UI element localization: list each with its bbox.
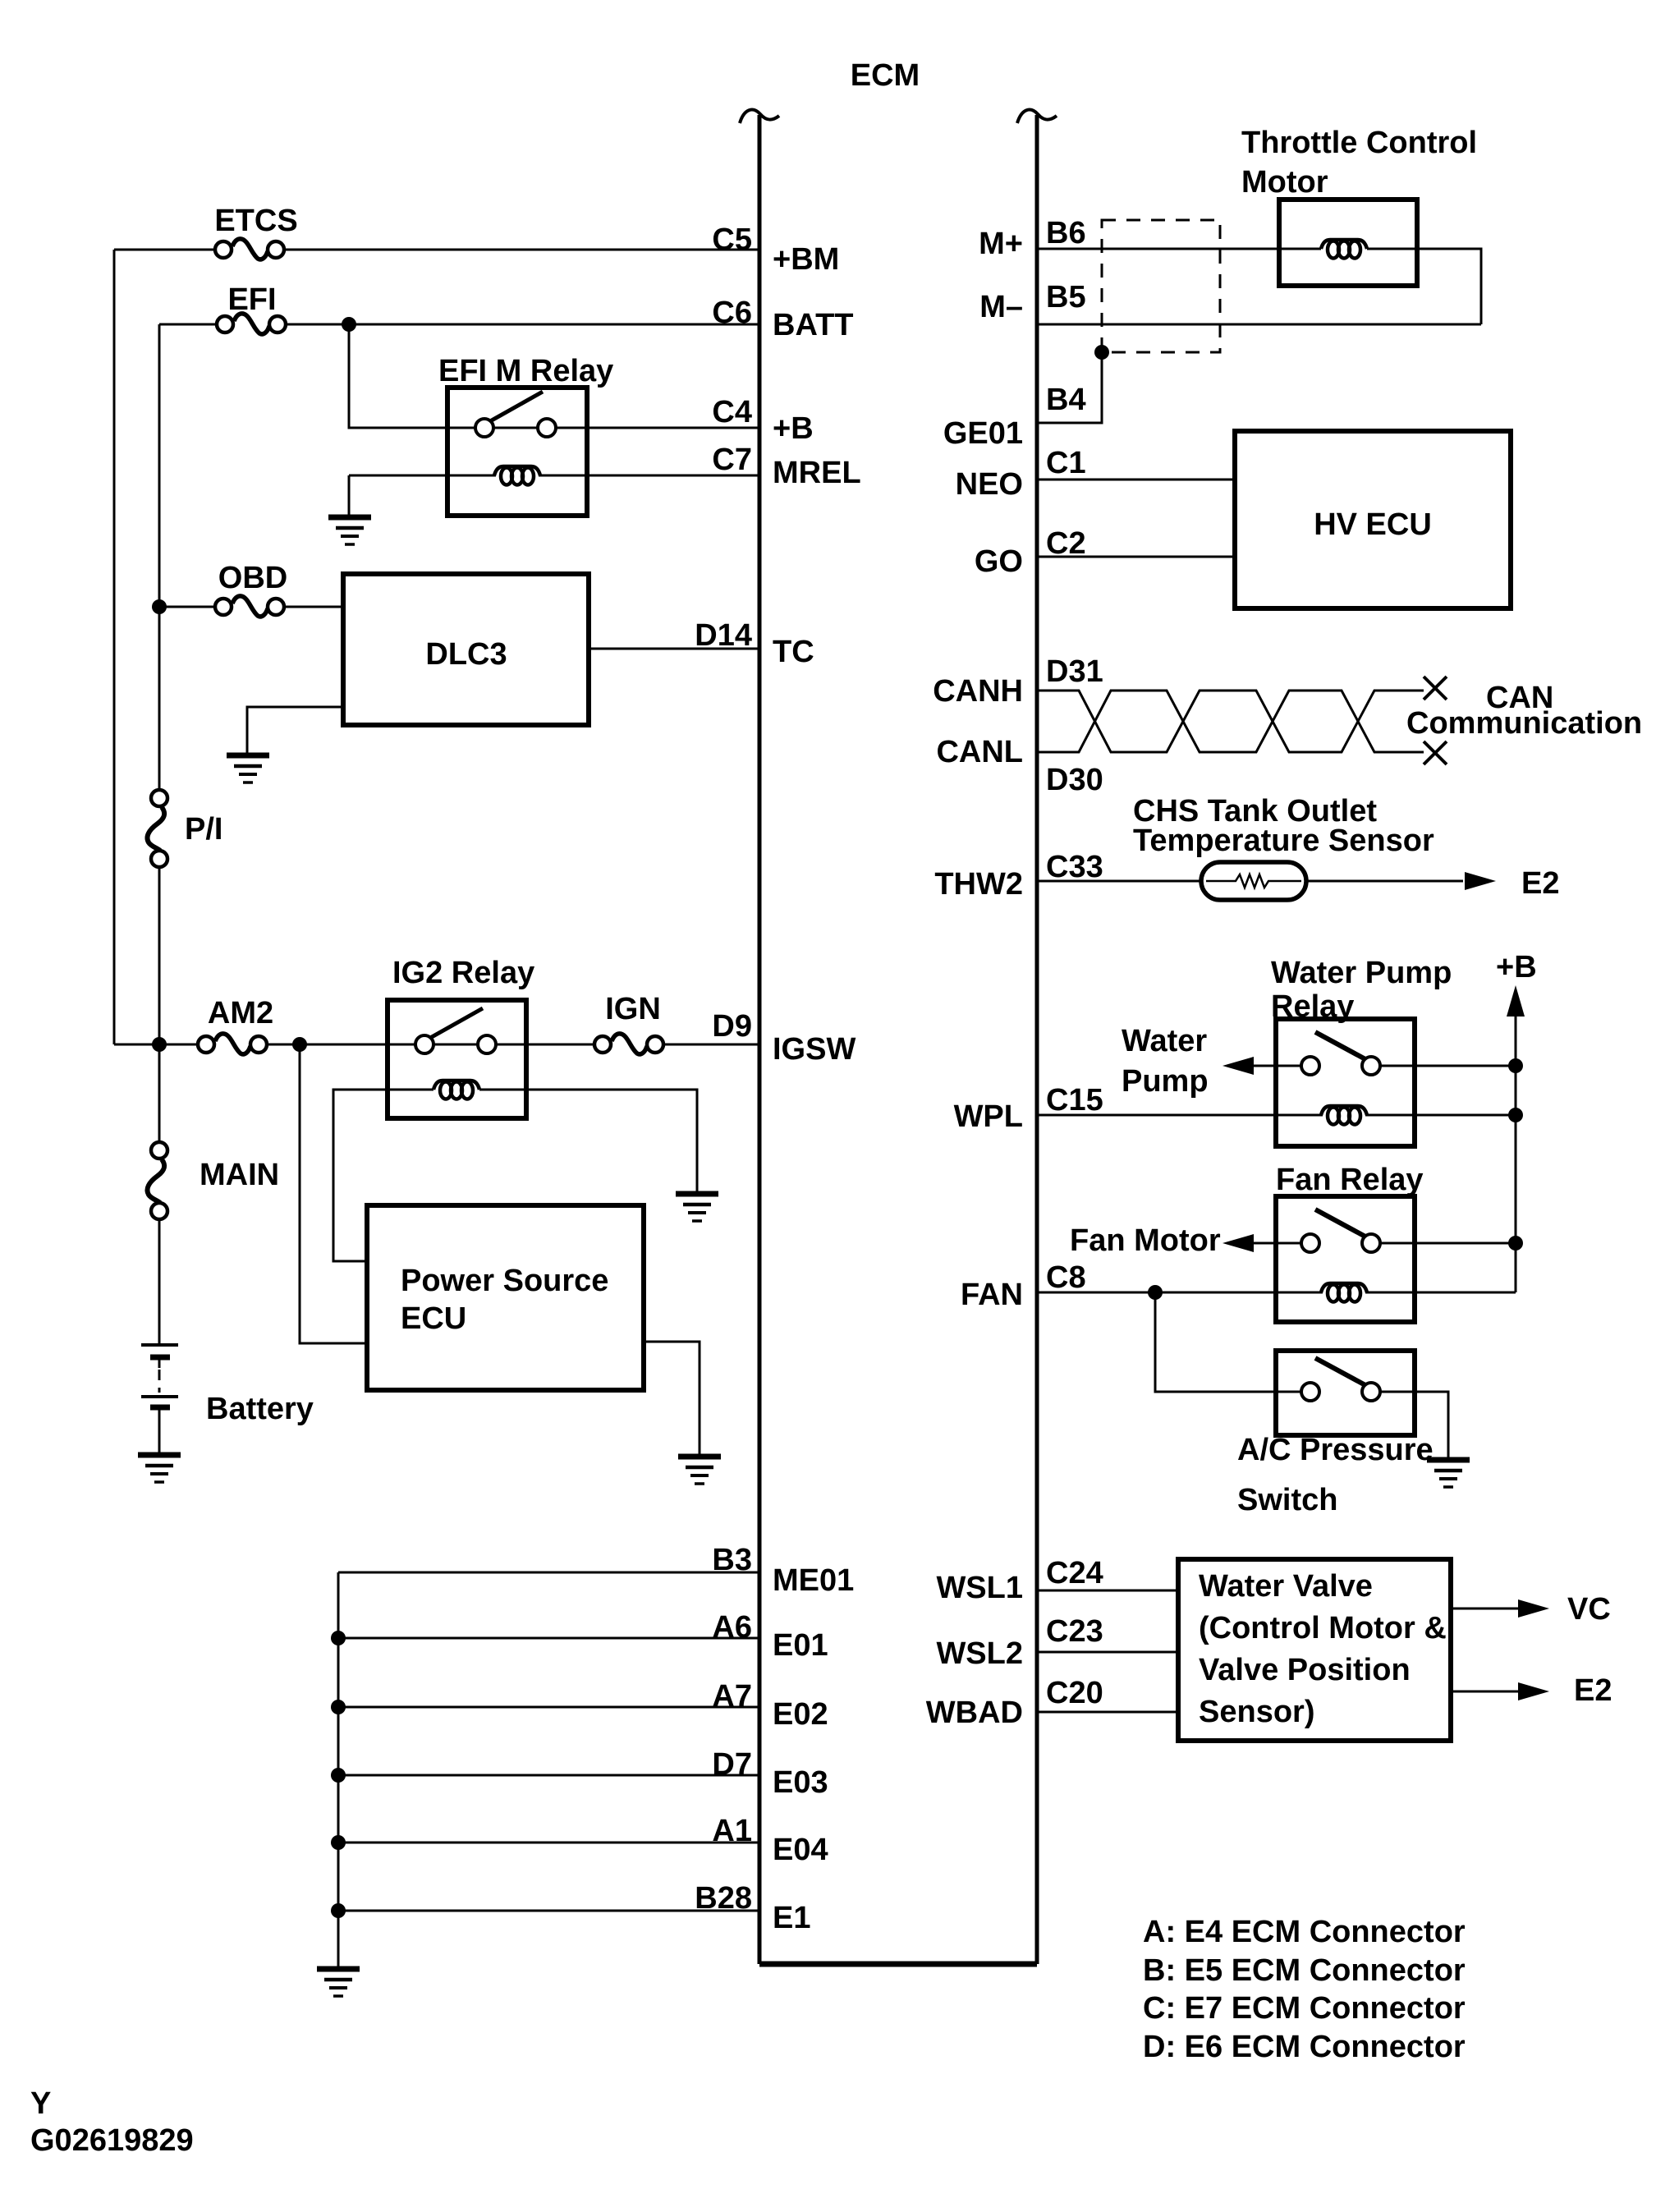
svg-text:AM2: AM2 — [208, 996, 273, 1030]
svg-text:WPL: WPL — [954, 1099, 1023, 1134]
pin C24 WSL1 — [936, 1556, 1103, 1605]
node FAN branch — [1148, 1285, 1163, 1300]
svg-text:E01: E01 — [773, 1628, 828, 1663]
wire IG2 coil to Power Source ECU — [333, 1090, 433, 1261]
label Battery — [206, 1392, 314, 1426]
ground IG2 relay coil — [676, 1194, 718, 1221]
label figure number G02619829 — [30, 2123, 194, 2158]
svg-text:E03: E03 — [773, 1765, 828, 1800]
relay EFI M switch — [475, 392, 556, 437]
svg-text:C: E7 ECM Connector: C: E7 ECM Connector — [1143, 1991, 1466, 2026]
svg-text:Water Valve: Water Valve — [1199, 1569, 1373, 1604]
svg-text:Throttle Control: Throttle Control — [1241, 126, 1477, 160]
pin C15 WPL — [954, 1083, 1103, 1134]
wire DLC3 ground lead — [247, 707, 343, 754]
box Power Source ECU — [367, 1205, 644, 1390]
svg-text:ME01: ME01 — [773, 1563, 854, 1598]
battery — [141, 1212, 178, 1455]
pin B5 M– — [979, 280, 1085, 324]
svg-text:D: E6 ECM Connector: D: E6 ECM Connector — [1143, 2030, 1466, 2064]
wire FAN branch to A/C switch — [1155, 1292, 1301, 1392]
label IG2 Relay — [392, 956, 534, 990]
arrow and label +B — [1496, 950, 1537, 1017]
wire WSL2 C23 — [1037, 1651, 1178, 1654]
box DLC3 — [343, 574, 589, 725]
svg-text:WSL2: WSL2 — [936, 1636, 1023, 1671]
svg-text:A6: A6 — [712, 1610, 752, 1645]
wire BATT C6 from EFI fuse to ECM — [159, 324, 759, 326]
svg-text:GO: GO — [975, 544, 1023, 579]
svg-text:B4: B4 — [1046, 383, 1086, 417]
node shield connection — [1094, 345, 1109, 360]
svg-text:D31: D31 — [1046, 654, 1103, 689]
ground DLC3 — [227, 755, 269, 782]
box HV ECU — [1235, 431, 1511, 608]
svg-text:B28: B28 — [695, 1881, 752, 1916]
pin C4 +B — [712, 395, 813, 446]
wire water pump output arrow — [1223, 1057, 1301, 1075]
svg-text:IGN: IGN — [605, 992, 661, 1026]
node AM2 riser junction — [152, 1037, 167, 1052]
relay EFI M coil — [494, 466, 540, 485]
node BATT junction — [342, 317, 356, 332]
node OBD junction — [152, 599, 167, 614]
svg-text:GE01: GE01 — [943, 416, 1023, 451]
wire IG2 coil to ground — [479, 1090, 697, 1192]
wire FAN C8 relay coil line — [1037, 1292, 1516, 1294]
svg-text:Battery: Battery — [206, 1392, 314, 1426]
pin C7 MREL — [712, 443, 860, 490]
wire GO C2 — [1037, 556, 1235, 558]
label Throttle Control Motor — [1241, 126, 1477, 200]
label Water Pump Relay — [1271, 956, 1452, 1024]
svg-text:CANL: CANL — [936, 735, 1023, 769]
svg-text:A/C Pressure: A/C Pressure — [1237, 1433, 1434, 1467]
wire fan motor output arrow — [1223, 1234, 1301, 1252]
pin C2 GO — [975, 526, 1086, 579]
wire A/C switch to ground — [1380, 1392, 1448, 1458]
svg-text:Fan Motor: Fan Motor — [1070, 1223, 1221, 1258]
svg-text:IG2 Relay: IG2 Relay — [392, 956, 534, 990]
pin C23 WSL2 — [936, 1614, 1103, 1671]
wire THW2 C33 to E2 — [1037, 880, 1463, 883]
svg-text:VC: VC — [1567, 1592, 1611, 1627]
svg-text:E2: E2 — [1574, 1673, 1612, 1708]
arrow and label E2 (THW2) — [1465, 866, 1559, 901]
switch A/C pressure contacts — [1301, 1358, 1380, 1401]
pin C8 FAN — [961, 1260, 1086, 1312]
svg-text:WBAD: WBAD — [926, 1696, 1023, 1730]
svg-text:E2: E2 — [1521, 866, 1559, 901]
svg-text:ECM: ECM — [851, 58, 920, 93]
box Water Valve — [1178, 1559, 1451, 1741]
svg-text:C5: C5 — [712, 223, 752, 257]
svg-text:C8: C8 — [1046, 1260, 1086, 1295]
label CAN Communication — [1406, 681, 1642, 741]
relay Fan coil — [1321, 1283, 1367, 1302]
pin C33 THW2 — [934, 850, 1103, 902]
wire WSL1 C24 — [1037, 1590, 1178, 1592]
throttle motor winding — [1321, 240, 1367, 259]
svg-text:EFI: EFI — [227, 282, 276, 317]
ECM title — [851, 58, 920, 93]
node rail WPL coil — [1508, 1108, 1523, 1122]
wire +BM C5 from ETCS fuse to ECM — [114, 249, 759, 251]
svg-text:P/I: P/I — [185, 812, 222, 847]
svg-text:C24: C24 — [1046, 1556, 1103, 1590]
svg-text:C2: C2 — [1046, 526, 1086, 561]
pin D30 CANL — [936, 735, 1103, 797]
svg-text:C23: C23 — [1046, 1614, 1103, 1649]
fuse EFI — [217, 282, 286, 334]
wire M+ B6 to throttle motor — [1037, 249, 1481, 324]
label EFI M Relay — [438, 354, 613, 388]
wire GE01 B4 shield drain — [1037, 352, 1102, 423]
wire and label E2 output — [1451, 1673, 1612, 1708]
node AM2 feed junction — [292, 1037, 307, 1052]
svg-text:CANH: CANH — [933, 674, 1023, 709]
wire E03 D7 — [331, 1768, 759, 1783]
pin C5 +BM — [712, 223, 839, 277]
svg-text:Pump: Pump — [1122, 1064, 1209, 1099]
wire IGSW D9 / AM2 line — [114, 1044, 759, 1046]
wire WBAD C20 — [1037, 1711, 1178, 1714]
fuse ETCS — [214, 204, 297, 259]
ground Power Source ECU — [678, 1457, 721, 1484]
ground ECM E1 rail — [317, 1969, 360, 1996]
svg-text:M–: M– — [979, 290, 1023, 324]
svg-text:IGSW: IGSW — [773, 1032, 856, 1067]
fuse OBD — [215, 561, 287, 617]
X mark CANH end — [1424, 677, 1447, 700]
relay IG2 switch — [415, 1008, 496, 1053]
fuse MAIN — [147, 1142, 279, 1219]
svg-text:D14: D14 — [695, 618, 752, 653]
pin D14 TC — [695, 618, 814, 669]
svg-text:Power Source: Power Source — [401, 1264, 608, 1298]
pin D31 CANH — [933, 654, 1103, 709]
svg-text:WSL1: WSL1 — [936, 1571, 1023, 1605]
wire relay contact to +B rail — [1380, 1065, 1516, 1067]
svg-text:C1: C1 — [1046, 446, 1086, 480]
label Y — [30, 2086, 51, 2121]
pin B6 M+ — [979, 216, 1085, 261]
wire +B C4 via EFI M relay — [349, 324, 759, 428]
svg-text:THW2: THW2 — [934, 867, 1023, 902]
svg-text:BATT: BATT — [773, 308, 854, 342]
svg-text:Temperature Sensor: Temperature Sensor — [1133, 824, 1434, 858]
svg-text:(Control Motor &: (Control Motor & — [1199, 1611, 1447, 1645]
svg-text:ETCS: ETCS — [214, 204, 297, 238]
relay Fan switch — [1301, 1209, 1380, 1252]
svg-text:OBD: OBD — [218, 561, 287, 595]
wire EFI riser down to battery — [158, 324, 161, 1345]
relay EFI M box — [447, 388, 587, 516]
svg-text:+BM: +BM — [773, 242, 839, 277]
wire fan relay contact to +B rail — [1380, 1242, 1516, 1245]
wire OBD to DLC3 — [159, 606, 343, 608]
svg-text:D30: D30 — [1046, 763, 1103, 797]
fuse IGN — [594, 992, 663, 1054]
pin C1 NEO — [956, 446, 1086, 502]
label A/C Pressure Switch — [1237, 1433, 1434, 1517]
wire E1 B28 — [331, 1903, 759, 1918]
svg-text:ECU: ECU — [401, 1301, 466, 1336]
pin C20 WBAD — [926, 1676, 1103, 1730]
pin D7 E03 — [712, 1747, 828, 1800]
svg-text:+B: +B — [773, 411, 814, 446]
ECM bottom edge — [759, 1962, 1037, 1967]
svg-text:Motor: Motor — [1241, 165, 1328, 200]
svg-text:DLC3: DLC3 — [425, 637, 507, 672]
svg-text:C20: C20 — [1046, 1676, 1103, 1710]
wire NEO C1 — [1037, 479, 1235, 481]
svg-text:HV ECU: HV ECU — [1314, 507, 1432, 542]
wire and label VC output — [1451, 1592, 1611, 1627]
wire E02 A7 — [331, 1700, 759, 1714]
ECM left column line — [740, 110, 779, 1964]
pin D9 IGSW — [712, 1009, 856, 1067]
label Water Pump load — [1122, 1024, 1209, 1099]
svg-text:A: E4 ECM Connector: A: E4 ECM Connector — [1143, 1915, 1466, 1949]
ground A/C pressure switch — [1427, 1460, 1470, 1487]
svg-text:C7: C7 — [712, 443, 752, 477]
box throttle control motor — [1279, 200, 1417, 286]
wire E01 A6 — [331, 1631, 759, 1645]
label Fan Motor — [1070, 1223, 1221, 1258]
relay IG2 box — [388, 1000, 526, 1118]
pin A7 E02 — [712, 1679, 828, 1732]
svg-text:TC: TC — [773, 635, 814, 669]
svg-text:Communication: Communication — [1406, 706, 1642, 741]
svg-text:Y: Y — [30, 2086, 51, 2121]
shield dashed box — [1102, 220, 1220, 352]
wire +B rail — [1515, 1017, 1517, 1292]
ECM right column line — [1017, 110, 1057, 1964]
label Fan Relay — [1276, 1163, 1424, 1197]
wire CANH D31 twisted pair — [1037, 691, 1424, 752]
switch A/C pressure box — [1276, 1351, 1415, 1435]
svg-text:B5: B5 — [1046, 280, 1086, 314]
wire TC D14 from DLC3 to ECM — [589, 648, 759, 650]
pin C6 BATT — [712, 296, 853, 342]
fuse AM2 — [198, 996, 273, 1054]
svg-text:D9: D9 — [712, 1009, 752, 1044]
svg-text:E1: E1 — [773, 1901, 810, 1935]
svg-text:B6: B6 — [1046, 216, 1086, 250]
X mark CANL end — [1424, 741, 1447, 764]
relay IG2 coil — [433, 1081, 479, 1099]
relay Water Pump coil — [1321, 1106, 1367, 1125]
svg-text:FAN: FAN — [961, 1278, 1023, 1312]
pin B3 ME01 — [712, 1543, 854, 1598]
ground EFI M relay coil — [328, 517, 371, 544]
wire E04 A1 — [331, 1835, 759, 1850]
svg-text:Water Pump: Water Pump — [1271, 956, 1452, 990]
svg-text:Switch: Switch — [1237, 1483, 1337, 1517]
svg-text:B: E5 ECM Connector: B: E5 ECM Connector — [1143, 1953, 1466, 1988]
pin B28 E1 — [695, 1881, 810, 1935]
svg-text:Valve Position: Valve Position — [1199, 1653, 1411, 1687]
svg-text:E02: E02 — [773, 1697, 828, 1732]
wire WPL C15 relay coil line — [1037, 1114, 1516, 1117]
pin B4 GE01 — [943, 383, 1086, 451]
node rail water pump — [1508, 1058, 1523, 1073]
svg-text:C6: C6 — [712, 296, 752, 330]
svg-text:A1: A1 — [712, 1814, 752, 1848]
wire Power Source ECU ground lead — [644, 1342, 700, 1455]
wire battery feed to Power Source ECU — [300, 1044, 367, 1343]
svg-text:C33: C33 — [1046, 850, 1103, 884]
fuse P/I — [147, 790, 222, 867]
relay Water Pump box — [1276, 1019, 1415, 1146]
svg-text:C15: C15 — [1046, 1083, 1103, 1117]
svg-text:+B: +B — [1496, 950, 1537, 984]
ground battery — [138, 1455, 181, 1482]
svg-text:G02619829: G02619829 — [30, 2123, 194, 2158]
svg-text:Water: Water — [1122, 1024, 1207, 1058]
svg-text:MAIN: MAIN — [200, 1158, 279, 1192]
svg-text:C4: C4 — [712, 395, 752, 429]
node rail fan relay — [1508, 1236, 1523, 1251]
svg-text:Sensor): Sensor) — [1199, 1695, 1314, 1729]
relay Water Pump switch — [1301, 1032, 1380, 1075]
legend ECM connectors — [1143, 1915, 1466, 2064]
svg-text:M+: M+ — [979, 227, 1023, 261]
svg-text:Fan Relay: Fan Relay — [1276, 1163, 1424, 1197]
svg-text:A7: A7 — [712, 1679, 752, 1714]
svg-text:E04: E04 — [773, 1833, 828, 1867]
sensor CHS tank outlet temperature — [1201, 862, 1306, 900]
svg-text:NEO: NEO — [956, 467, 1023, 502]
relay Fan box — [1276, 1196, 1415, 1322]
wire CANL D30 twisted pair — [1037, 691, 1424, 752]
wire M- B5 return — [1037, 324, 1481, 326]
svg-text:B3: B3 — [712, 1543, 752, 1577]
wire ME01 B3 and ground rail — [338, 1572, 759, 1969]
wire ETCS riser to AM2 line — [113, 250, 116, 1044]
wire MREL C7 / relay coil to ground — [349, 475, 759, 516]
svg-text:EFI M Relay: EFI M Relay — [438, 354, 613, 388]
pin A1 E04 — [712, 1814, 828, 1867]
svg-text:D7: D7 — [712, 1747, 752, 1782]
svg-text:MREL: MREL — [773, 456, 861, 490]
pin A6 E01 — [712, 1610, 828, 1663]
label CHS Tank Outlet Temperature Sensor — [1133, 794, 1434, 858]
